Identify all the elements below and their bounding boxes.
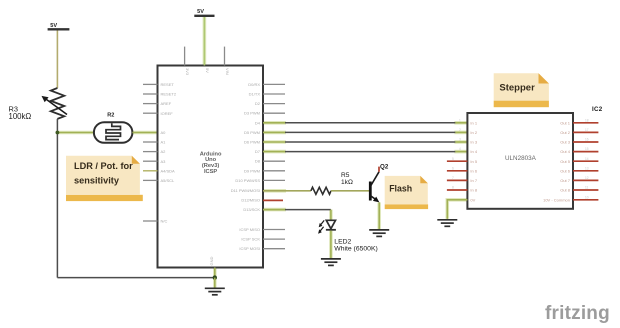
label LED2 White: [334, 239, 377, 253]
ground GND3: [369, 230, 389, 237]
svg-text:ICSP MOSI: ICSP MOSI: [239, 246, 260, 251]
svg-text:IC2: IC2: [592, 106, 603, 113]
pin GND stub bottom: [214, 268, 216, 278]
svg-text:IOREF: IOREF: [161, 111, 174, 116]
svg-text:10V - Common: 10V - Common: [543, 197, 570, 202]
svg-text:In 3: In 3: [470, 140, 477, 145]
op Arduino Uno U1 body: [158, 66, 264, 268]
svg-text:Out 4: Out 4: [560, 149, 571, 154]
svg-text:6: 6: [452, 166, 454, 170]
wire glow halos: [57, 17, 467, 288]
svg-text:11: 11: [585, 186, 589, 190]
svg-text:Out 1: Out 1: [560, 120, 571, 125]
pin numbers ULN: [452, 118, 589, 199]
wire D6 to In3: [263, 141, 467, 143]
svg-text:D11 PWM/MOSI: D11 PWM/MOSI: [231, 188, 260, 193]
pin labels top rotated: [185, 68, 230, 266]
wire 5V to Arduino 5V pin: [203, 17, 205, 66]
svg-text:D13/SCK: D13/SCK: [243, 207, 260, 212]
wire LED to ground: [330, 231, 332, 259]
svg-text:A0: A0: [161, 130, 167, 135]
wire D4 to In1: [263, 122, 467, 124]
pin stubs left Arduino: [143, 84, 158, 221]
svg-text:LDR / Pot. for: LDR / Pot. for: [74, 161, 133, 171]
svg-text:A5/SCL: A5/SCL: [161, 178, 176, 183]
svg-text:fritzing: fritzing: [545, 303, 610, 324]
svg-text:Out 7: Out 7: [560, 178, 571, 183]
svg-text:8: 8: [452, 186, 454, 190]
wire D12 red stub: [263, 199, 283, 201]
svg-text:5V: 5V: [205, 68, 210, 73]
IC ULN2803A U2 body: [467, 113, 573, 209]
svg-text:D4: D4: [255, 120, 261, 125]
svg-text:3: 3: [459, 138, 461, 142]
svg-text:AREF: AREF: [161, 101, 172, 106]
svg-text:In 5: In 5: [470, 159, 477, 164]
svg-text:2: 2: [459, 128, 461, 132]
svg-text:3V3: 3V3: [185, 68, 190, 76]
note LDR / Pot. for sensitivity: [66, 156, 143, 201]
svg-text:Out 6: Out 6: [560, 168, 571, 173]
svg-text:1kΩ: 1kΩ: [341, 179, 353, 186]
wire bottom rail to ground junction: [57, 277, 214, 279]
svg-text:ICSP MISO: ICSP MISO: [239, 227, 260, 232]
svg-text:5V: 5V: [197, 9, 204, 15]
wire D13 to LED: [263, 210, 331, 221]
label R5 1k: [341, 172, 353, 186]
svg-text:D5 PWM: D5 PWM: [244, 130, 260, 135]
label R3 100k: [9, 105, 32, 122]
pin stubs In5-In8 red: [447, 161, 468, 190]
power 5V left: [48, 23, 70, 29]
wire Q2 collector red stub: [378, 167, 380, 172]
power 5V top: [194, 9, 214, 16]
svg-text:1: 1: [459, 118, 461, 122]
svg-text:15: 15: [585, 147, 589, 151]
svg-text:Out 8: Out 8: [560, 188, 571, 193]
pin 3V3 stub: [184, 47, 186, 66]
ground GND2: [321, 259, 341, 266]
svg-text:ICSP: ICSP: [204, 169, 217, 175]
pin labels ULN left: [470, 120, 477, 202]
svg-text:In 7: In 7: [470, 178, 477, 183]
svg-text:13: 13: [585, 166, 589, 170]
svg-text:GND: GND: [209, 257, 214, 266]
svg-text:ICSP SCK: ICSP SCK: [241, 237, 260, 242]
svg-text:In 8: In 8: [470, 188, 477, 193]
svg-text:Out 5: Out 5: [560, 159, 571, 164]
wire Q2 emitter to ground: [378, 202, 380, 229]
svg-text:D1/TX: D1/TX: [249, 92, 261, 97]
LED LED2: [318, 220, 336, 233]
svg-text:Out 3: Out 3: [560, 140, 571, 145]
svg-text:100kΩ: 100kΩ: [9, 112, 32, 121]
pin labels left: [161, 82, 177, 224]
svg-text:RESET2: RESET2: [161, 92, 177, 97]
resistor R3 (potentiometer): [42, 88, 68, 119]
svg-text:Q2: Q2: [380, 163, 389, 170]
svg-text:D10 PWM/SS: D10 PWM/SS: [235, 178, 260, 183]
ground GND1: [205, 288, 225, 295]
svg-text:In 2: In 2: [470, 130, 477, 135]
svg-text:D0/RX: D0/RX: [248, 82, 260, 87]
wire D5 to In2: [263, 131, 467, 133]
svg-text:A2: A2: [161, 149, 167, 154]
wire 5V to R3: [56, 31, 58, 89]
svg-text:D6 PWM: D6 PWM: [244, 140, 260, 145]
ground GND4: [437, 220, 457, 227]
svg-text:Stepper: Stepper: [499, 82, 535, 93]
svg-text:Flash: Flash: [389, 183, 412, 193]
label Arduino center: [200, 151, 222, 174]
svg-text:4: 4: [459, 147, 461, 151]
svg-text:14: 14: [585, 157, 589, 161]
svg-text:White (6500K): White (6500K): [334, 245, 377, 252]
svg-text:In 1: In 1: [470, 120, 477, 125]
svg-text:ULN2803A: ULN2803A: [505, 155, 537, 162]
wire R2 to A0: [132, 132, 157, 134]
svg-text:D9 PWM: D9 PWM: [244, 168, 260, 173]
wire D11 to R5: [263, 190, 311, 192]
svg-text:18: 18: [585, 118, 589, 122]
svg-text:D7: D7: [255, 149, 261, 154]
svg-text:A3: A3: [161, 159, 167, 164]
svg-text:R2: R2: [107, 113, 114, 119]
pin stubs right Arduino (unconnected): [263, 84, 285, 248]
note Flash: [385, 176, 428, 209]
pin A4 stub: [143, 170, 158, 172]
svg-text:In 4: In 4: [470, 149, 477, 154]
svg-text:0V: 0V: [470, 197, 475, 202]
wire R5 to Q2 base: [331, 190, 369, 192]
svg-text:N/C: N/C: [161, 219, 168, 224]
resistor R5: [311, 187, 331, 194]
svg-text:A4/SDA: A4/SDA: [161, 168, 176, 173]
svg-text:D8: D8: [255, 159, 261, 164]
svg-text:12: 12: [585, 176, 589, 180]
transistor Q2: [370, 172, 379, 203]
svg-text:D12/MISO: D12/MISO: [241, 198, 260, 203]
svg-text:A1: A1: [161, 140, 167, 145]
pin VIN stub: [224, 47, 226, 66]
svg-text:In 6: In 6: [470, 168, 477, 173]
pin labels right: [231, 82, 261, 251]
svg-text:17: 17: [585, 128, 589, 132]
svg-text:RESET: RESET: [161, 82, 175, 87]
wire D7 to In4: [263, 151, 467, 153]
svg-text:16: 16: [585, 138, 589, 142]
photoresistor R2: [94, 122, 132, 143]
node GND junction: [213, 275, 217, 279]
svg-text:10: 10: [585, 195, 589, 199]
node R3/R2 junction: [56, 131, 94, 135]
note Stepper: [494, 73, 549, 107]
wire 0V to ground: [447, 200, 467, 219]
pin stubs Out1-Out8 + COM red: [573, 123, 598, 200]
svg-text:VIN: VIN: [225, 68, 230, 75]
wire junction to ground: [214, 278, 216, 288]
svg-text:7: 7: [452, 176, 454, 180]
svg-text:Out 2: Out 2: [560, 130, 571, 135]
svg-text:D2: D2: [255, 101, 261, 106]
svg-text:sensitivity: sensitivity: [74, 176, 120, 186]
svg-text:D3 PWM: D3 PWM: [244, 111, 260, 116]
svg-text:5: 5: [452, 157, 454, 161]
pin labels ULN right: [543, 120, 571, 202]
wire R3 down left rail: [56, 119, 58, 278]
